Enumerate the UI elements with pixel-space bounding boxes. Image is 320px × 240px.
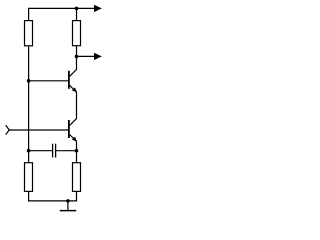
node collector Q1 dot (75, 55, 79, 59)
transistor Q1 emitter arrow (72, 87, 77, 92)
resistor R2 (73, 21, 81, 46)
transistor Q1 emitter (70, 85, 77, 125)
resistor R3 (25, 163, 33, 192)
resistor R1 (25, 21, 33, 46)
wire R2 bottom stub (76, 46, 78, 57)
capacitor C1 plate left (52, 144, 54, 158)
transistor Q1 bar (68, 71, 70, 89)
transistor Q2 emitter (70, 135, 77, 151)
ground (60, 201, 76, 211)
transistor Q1 collector (70, 56, 77, 76)
port P2 arrow top right (94, 5, 102, 12)
wire base Q1 (29, 80, 69, 82)
resistor R4 (73, 163, 81, 192)
node VCC dot (75, 7, 79, 11)
wire bottom rail (29, 191, 77, 201)
wire top rail with R1 top stub (29, 8, 94, 21)
wire R2 top stub (76, 8, 78, 21)
port P3 arrow output (94, 53, 102, 60)
node B1 dot (27, 79, 31, 83)
node cap left dot (27, 149, 31, 153)
wire cap right (56, 150, 77, 152)
transistor Q2 emitter arrow (72, 137, 77, 142)
wire output to port (77, 55, 95, 57)
wire left vertical (28, 46, 30, 163)
port P1 input (6, 125, 10, 135)
transistor Q2 bar (68, 120, 70, 138)
capacitor C1 plate right (55, 144, 57, 158)
wire R4 top stub (76, 151, 78, 163)
node E2 dot (75, 149, 79, 153)
wire cap left (29, 150, 53, 152)
wire base Q2 (9, 129, 68, 131)
node ground dot (66, 199, 70, 203)
